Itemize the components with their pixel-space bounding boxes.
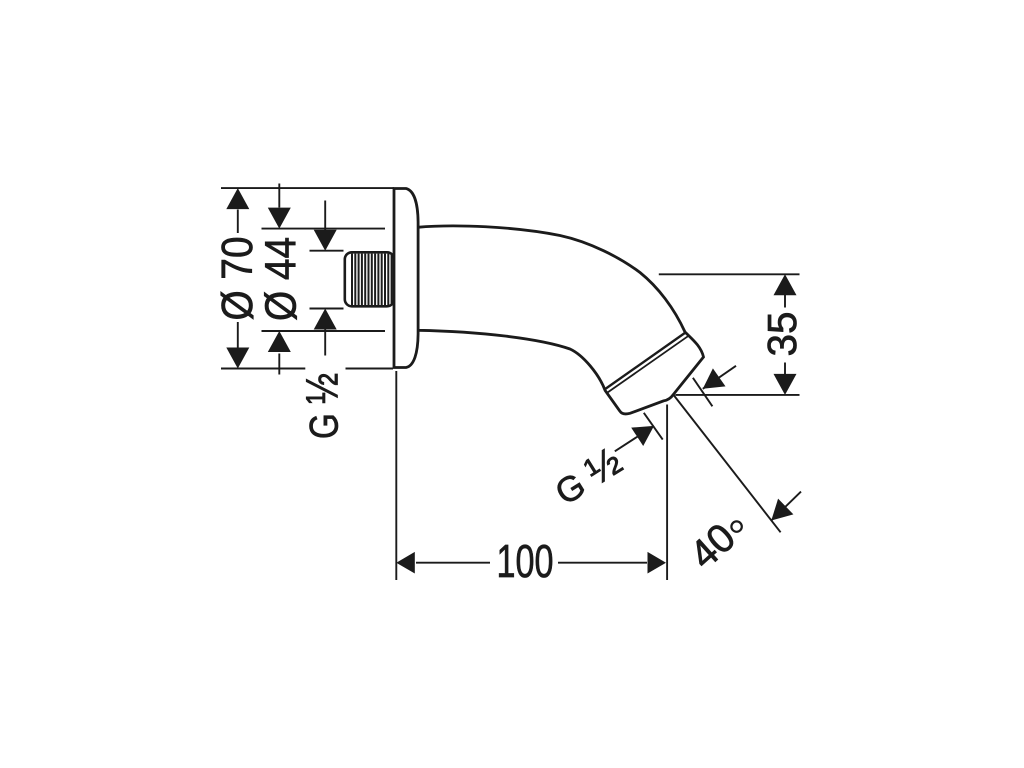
svg-text:100: 100 [497, 535, 554, 587]
svg-text:Ø 70: Ø 70 [213, 237, 262, 321]
svg-text:G ½: G ½ [297, 373, 348, 439]
svg-text:35: 35 [759, 312, 805, 357]
svg-text:Ø 44: Ø 44 [257, 237, 306, 321]
